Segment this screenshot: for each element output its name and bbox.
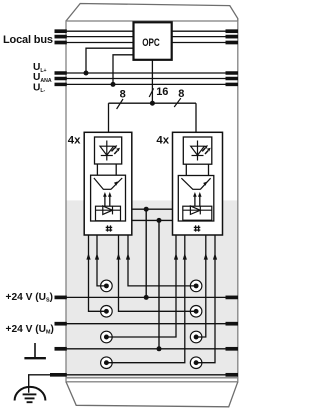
- local bus line 2: [66, 36, 238, 38]
- svg-text:16: 16: [156, 86, 168, 98]
- rail FE: [66, 374, 238, 376]
- wire US drop: [145, 209, 147, 297]
- node data junction: [150, 101, 155, 106]
- local bus line 3: [66, 42, 238, 44]
- wire input IN1: [97, 235, 106, 286]
- wire input IN6: [106, 235, 184, 363]
- svg-text:+24 V (US): +24 V (US): [6, 292, 53, 304]
- phototransistor cell box right: [178, 176, 214, 222]
- rail right terminal stubs: [226, 297, 239, 374]
- phototransistor cell box left: [91, 175, 126, 221]
- rail US +24V: [66, 296, 238, 298]
- wire input IN5: [106, 235, 176, 337]
- terminal circle 1.3: [101, 331, 113, 343]
- local bus line 1: [66, 30, 238, 32]
- transistor arrow right: [203, 182, 207, 186]
- signal arrow IN1: [95, 253, 99, 260]
- LED D1 left: [100, 141, 114, 161]
- phototransistor Q2 right: [181, 178, 210, 189]
- UL right terminal stubs: [226, 73, 239, 84]
- svg-text:4x: 4x: [68, 134, 81, 146]
- rail left terminal stubs: [50, 297, 67, 374]
- bus width slash 16: [149, 88, 153, 97]
- wire OPC data stem: [151, 60, 153, 103]
- terminal circle 2.4: [190, 357, 202, 369]
- signal arrow IN5: [174, 253, 178, 260]
- module front face: [66, 21, 238, 382]
- wire US link between groups: [132, 208, 173, 210]
- OPC U1: [134, 22, 172, 60]
- terminal circle 1.1: [101, 280, 113, 292]
- light arrows right: [195, 195, 200, 207]
- svg-text:4x: 4x: [156, 134, 169, 146]
- terminal circle 2.3: [190, 331, 202, 343]
- module 3D top face: [66, 4, 238, 22]
- protection diode box left: [96, 206, 121, 221]
- LED D3 right: [191, 141, 205, 161]
- diode D2 left: [96, 206, 121, 215]
- LED cell box left: [95, 137, 122, 164]
- terminal circle 2.2: [190, 306, 202, 318]
- local bus right terminal stubs: [226, 31, 239, 42]
- wire UANA rail: [66, 78, 238, 80]
- node US link junction: [144, 207, 149, 212]
- phototransistor Q1 left: [94, 178, 122, 189]
- wire input IN7: [196, 235, 206, 337]
- wire UL- rail: [66, 83, 238, 85]
- svg-text:8: 8: [178, 88, 184, 100]
- electronic switch symbol right: [194, 225, 201, 231]
- svg-text:OPC: OPC: [142, 37, 160, 49]
- svg-text:Local bus: Local bus: [3, 34, 53, 46]
- svg-text:8: 8: [120, 89, 126, 101]
- signal arrow IN8: [213, 253, 217, 260]
- wire drop to left group: [108, 103, 110, 132]
- wire UL+ rail: [66, 72, 238, 74]
- signal arrow IN6: [183, 253, 187, 260]
- wire UL- to OPC: [113, 55, 134, 85]
- transistor arrow left: [114, 181, 118, 185]
- module 3D bottom face: [66, 382, 238, 407]
- electronic switch symbol left: [106, 225, 113, 231]
- wire GND drop: [158, 220, 160, 348]
- module terminal area shading: [66, 200, 238, 377]
- rail UM +24V: [66, 323, 238, 325]
- wire data distribution: [109, 102, 197, 104]
- node US rail junction: [144, 295, 149, 300]
- node GND link junction: [157, 218, 162, 223]
- coupling neck right: [185, 164, 187, 176]
- bus width slash 8 left: [117, 99, 123, 109]
- optocoupler group right box: [173, 132, 223, 235]
- node UL+ junction: [84, 71, 89, 76]
- local bus left terminal stubs: [55, 31, 67, 42]
- bus width slash 8 right: [174, 98, 181, 107]
- node UL- junction: [111, 82, 116, 87]
- wire FE to earth: [29, 375, 54, 393]
- earth ground symbol: [15, 387, 46, 402]
- wire GND link between groups: [132, 219, 173, 221]
- GND symbol: [24, 343, 46, 358]
- terminal circle 1.4: [101, 357, 113, 369]
- wire input IN3: [128, 235, 196, 286]
- wire UL+ to OPC: [86, 48, 134, 73]
- signal arrow IN7: [204, 253, 208, 260]
- LED cell box right: [183, 137, 212, 164]
- terminal point dots: [104, 283, 199, 365]
- wire input IN8: [196, 235, 215, 363]
- signal arrow IN3: [126, 253, 130, 260]
- coupling neck left: [96, 164, 98, 175]
- optocoupler group left box: [84, 132, 132, 235]
- signal arrow IN2: [86, 253, 90, 260]
- rail GND: [66, 348, 238, 350]
- node GND rail junction: [157, 346, 162, 351]
- wire input IN4: [119, 235, 197, 311]
- protection diode box right: [183, 206, 212, 220]
- wire drop to right group: [195, 103, 197, 132]
- wire input IN2: [89, 235, 107, 311]
- LED emission arrows left: [112, 145, 121, 154]
- diode D4 right: [183, 206, 212, 215]
- UL left terminal stubs: [55, 73, 67, 84]
- LED emission arrows right: [202, 145, 211, 154]
- terminal circle 2.1: [190, 280, 202, 292]
- signal arrow IN4: [116, 253, 120, 260]
- terminal circle 1.2: [101, 306, 113, 318]
- module bottom front edge: [66, 377, 238, 379]
- light arrows left: [105, 195, 110, 207]
